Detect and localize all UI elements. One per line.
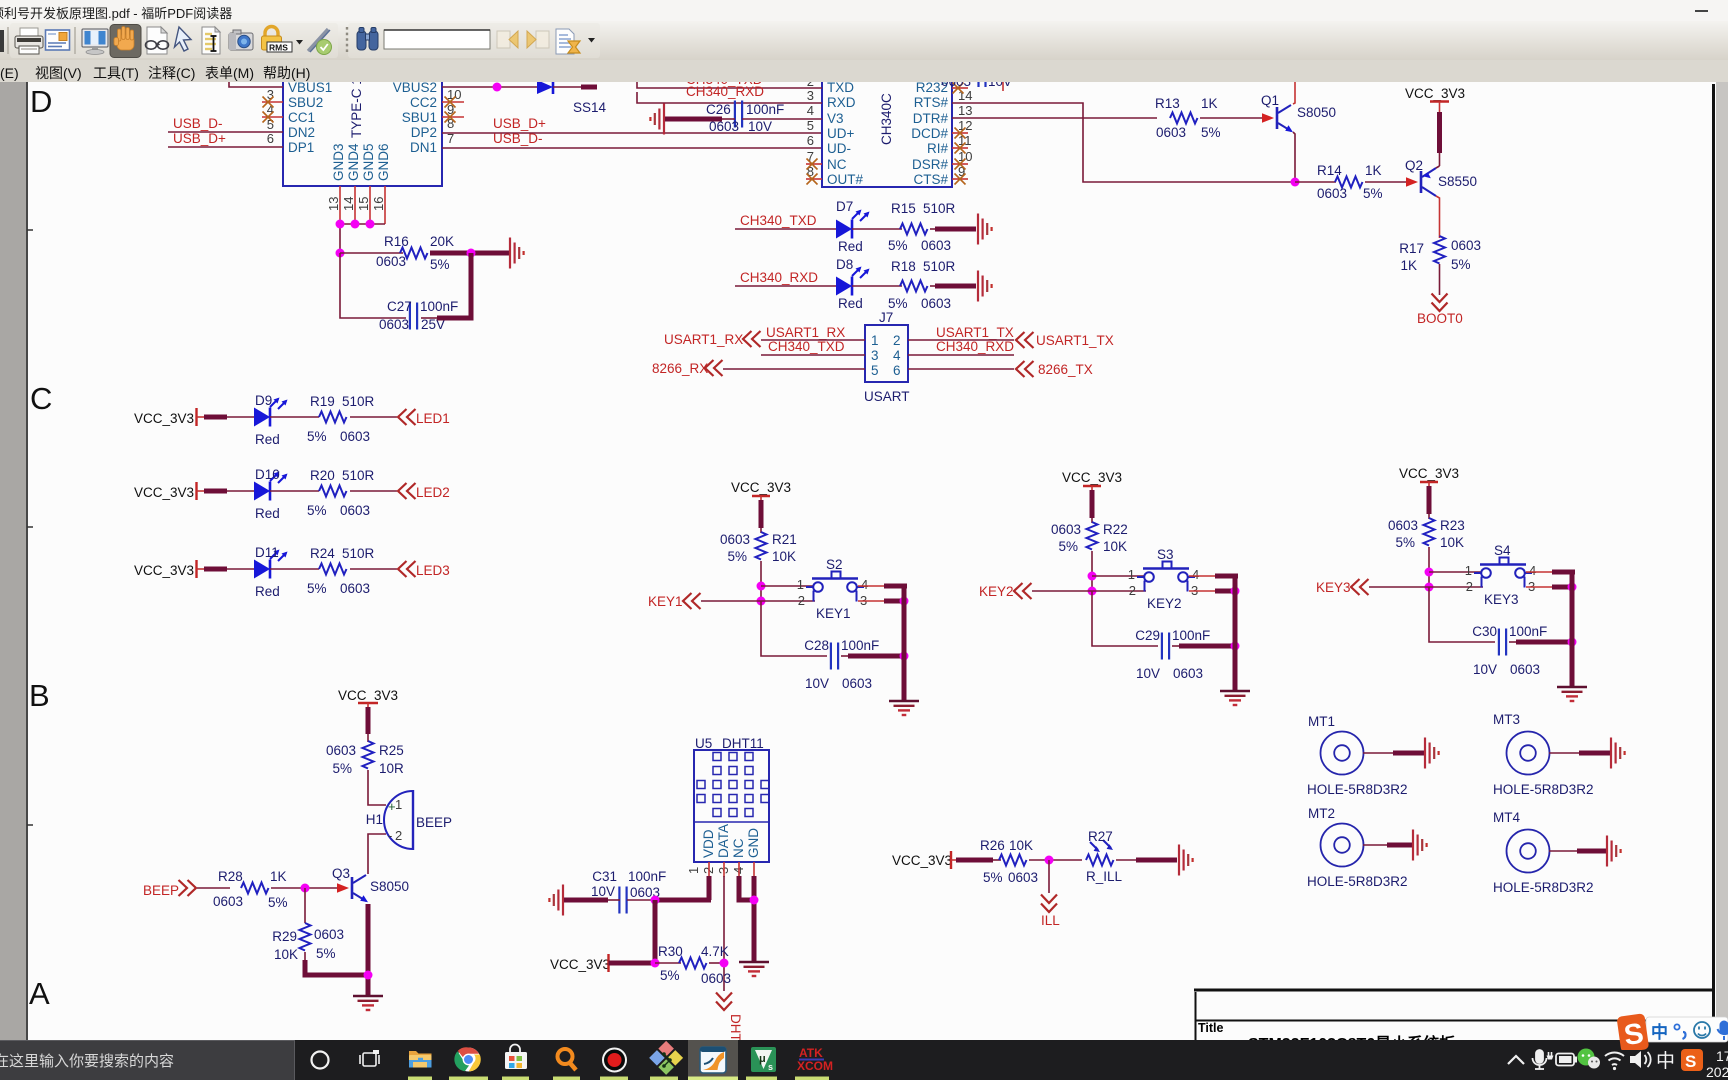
svg-text:D7: D7 [836,199,853,214]
junction GND5 [366,220,375,229]
photoresistor R27 R_ILL [1086,829,1123,884]
svg-text:RMS: RMS [269,43,288,53]
resistor R29 10K vertical [272,923,344,962]
menu bar [0,60,1728,82]
wire J7 pin6 [908,368,1014,370]
svg-text:3: 3 [807,88,814,103]
svg-text:CC1: CC1 [288,110,315,125]
svg-text:2: 2 [893,333,901,348]
svg-text:5%: 5% [316,946,336,961]
svg-text:5%: 5% [307,503,327,518]
wire Q2 collector down [1436,196,1440,238]
wire thick VCC to R23 [1427,486,1432,514]
svg-text:R27: R27 [1088,829,1113,844]
chevron LED1 [398,409,416,425]
svg-text:S2: S2 [826,557,843,572]
mounting hole MT1 [1307,714,1408,797]
ground MT4 [1607,836,1621,867]
wire thick VCC to R21 [759,500,764,528]
svg-text:S8050: S8050 [370,879,409,894]
junction emitter/R29 [364,971,373,980]
svg-text:在这里输入你要搜索的内容: 在这里输入你要搜索的内容 [0,1053,174,1070]
svg-text:R28: R28 [218,869,243,884]
wire thick VCC to R26 [951,859,957,861]
chevron LED2 [398,483,416,499]
wire USB_D+ to DP1 [168,146,283,148]
svg-text:1K: 1K [1201,96,1218,111]
svg-text:10R: 10R [379,761,404,776]
tray wifi icon [1605,1052,1624,1070]
wire VBUS2 to diode [442,86,537,88]
wire C31 to VDD junction [627,899,657,901]
junction C31/VDD [651,896,660,905]
svg-text:0603: 0603 [941,82,971,89]
svg-text:0603: 0603 [326,743,356,758]
junction row2 [757,597,766,606]
pin stubs GND3-GND6 [339,186,341,224]
svg-text:VDD: VDD [701,829,716,858]
LED D8 Red [836,257,870,311]
resistor R26 10K [980,838,1038,885]
junction bus cap row [900,652,909,661]
svg-text:R29: R29 [272,929,297,944]
pin stub DSR# with X [952,163,968,165]
svg-text:C27: C27 [387,299,412,314]
wire R22 to junction [1091,551,1093,591]
taskbar running indicators [408,1077,829,1080]
svg-text:5%: 5% [307,581,327,596]
mounting hole MT2 [1307,806,1408,889]
svg-text:GND5: GND5 [361,143,376,181]
pin stub SBU1 [442,116,464,118]
svg-text:10K: 10K [772,549,796,564]
svg-text:OUT#: OUT# [827,172,863,187]
toolbar prev search button [497,31,518,48]
wire R29 to ground bus [304,952,306,962]
svg-text:V3: V3 [827,111,844,126]
svg-text:14: 14 [341,197,356,211]
wire thick ground bus [1570,570,1575,687]
svg-text:6: 6 [893,363,901,378]
resistor R13 1K [1155,96,1221,140]
wire thick VCC to R25 [366,707,371,734]
svg-text:16: 16 [371,197,386,211]
wire thick VCC to D9 [197,416,206,418]
svg-text:KEY2: KEY2 [979,584,1014,599]
svg-text:0603: 0603 [376,254,406,269]
svg-text:KEY1: KEY1 [816,606,851,621]
wire C31 left plate [608,899,620,901]
svg-text:USART1_TX: USART1_TX [1036,333,1114,348]
no-connect X on CC2 [445,97,456,108]
wire thick ground bus [902,584,907,701]
svg-text:10V: 10V [1136,666,1160,681]
power VCC_3V3 for D9 [134,408,197,426]
resistor R14 1K [1317,163,1383,201]
wire CH340_RXD to D8 [735,285,836,287]
chevron KEY1 [683,593,701,609]
wire MT2 to ground [1363,844,1389,846]
svg-text:CTS#: CTS# [913,172,948,187]
svg-text:5: 5 [871,363,879,378]
svg-text:C: C [30,381,52,416]
svg-text:Red: Red [838,296,863,311]
svg-text:0603: 0603 [1388,518,1418,533]
svg-text:BEEP: BEEP [143,883,179,898]
wire C27 branch [340,253,406,318]
wire R21 to junction [760,561,762,601]
svg-text:LED3: LED3 [416,563,450,578]
chevron BOOT0 [1432,294,1448,312]
pin stub CC1 [262,116,283,118]
svg-text:XCOM: XCOM [797,1059,833,1073]
svg-text:Red: Red [838,239,863,254]
resistor R18 510R [888,259,956,311]
svg-text:10V: 10V [988,82,1012,89]
svg-text:10K: 10K [274,947,298,962]
junction R28/R29 [301,884,310,893]
wire C30 branch [1429,587,1495,642]
pin stub VDD [708,862,710,877]
svg-text:J7: J7 [879,310,893,325]
wire thick R15 to ground [930,228,935,230]
wire thick branch down [653,900,658,963]
wire R26 to junction [1029,859,1082,861]
svg-text:5%: 5% [727,549,747,564]
svg-text:VCC_3V3: VCC_3V3 [134,563,194,578]
svg-text:5%: 5% [888,296,908,311]
wire R25 to buzzer pin1 [368,770,386,805]
toolbar text select icon [202,27,220,54]
transistor Q2 S8550 [1405,158,1477,196]
svg-text:DN1: DN1 [410,140,437,155]
svg-text:Q2: Q2 [1405,158,1423,173]
wire thick VBUS segment [581,85,597,90]
LED D9 Red [254,393,288,447]
transistor Q1 S8050 [1261,93,1336,132]
wire C26 to V3 [742,118,822,120]
svg-text:1K: 1K [1365,163,1382,178]
junction row1 [1088,572,1097,581]
resistor R24 510R [307,546,375,596]
no-connect X on SBU2 [263,97,274,108]
svg-text:MT4: MT4 [1493,810,1520,825]
taskbar recorder icon [603,1049,626,1072]
junction row2 [1088,587,1097,596]
switch S3 [1128,547,1199,611]
ground MT2 [1413,830,1427,861]
wire J7 pin4 [908,354,1014,356]
svg-text:0603: 0603 [1510,662,1540,677]
svg-text:S: S [1685,1052,1696,1071]
pin stub CTS# with X [952,178,968,180]
svg-text:SS14: SS14 [573,100,607,115]
LED D7 Red [836,199,870,254]
svg-text:1: 1 [871,333,879,348]
svg-text:5%: 5% [307,429,327,444]
power VCC_3V3 for DHT11 [550,954,610,972]
wire thick NC to GND [739,876,754,900]
junction at R16 row [336,249,345,258]
svg-text:0603: 0603 [709,119,739,134]
svg-text:VBUS2: VBUS2 [393,82,437,95]
wire row1 to switch pin1 [1092,575,1145,577]
mounting hole MT4 [1493,810,1594,895]
wire row2 to switch pin2 [1429,586,1483,588]
svg-text:R18: R18 [891,259,916,274]
power symbol VCC_3V3 top right [1405,86,1465,107]
svg-text:LED2: LED2 [416,485,450,500]
toolbar snapshot doc+glasses icon [146,27,169,54]
svg-text:ILL: ILL [1041,913,1060,928]
svg-text:D10: D10 [255,467,280,482]
sogou IME popup [1600,1005,1728,1050]
svg-text:Red: Red [255,432,280,447]
wire to J7 pin3 [761,354,865,356]
wire pin3 to bus [858,600,886,602]
svg-text:5%: 5% [430,257,450,272]
wire R30 to DATA [709,962,724,964]
chevron BEEP [179,880,197,896]
svg-text:DN2: DN2 [288,125,315,140]
svg-text:MT2: MT2 [1308,806,1335,821]
svg-text:BOOT0: BOOT0 [1417,311,1463,326]
resistor R28 1K [213,869,288,910]
svg-text:RI#: RI# [927,141,949,156]
ground right of R18 [978,271,992,302]
wire thick VDD row [657,898,711,903]
ground BEEP circuit [353,996,383,1010]
wire thick R18 to ground [930,285,935,287]
wire node to R14 [1295,181,1336,183]
pin stub DATA [723,862,725,877]
pin stub NC [738,862,740,877]
svg-text:R26: R26 [980,838,1005,853]
svg-text:USB_D-: USB_D- [173,116,223,131]
svg-text:0603: 0603 [340,581,370,596]
svg-text:4: 4 [1192,567,1199,582]
svg-text:CH340_TXD: CH340_TXD [768,339,845,354]
power VCC_3V3 for buzzer [338,688,398,708]
chevron 8266_RX [705,360,723,376]
svg-text:DTR#: DTR# [913,111,949,126]
svg-text:510R: 510R [342,546,375,561]
junction bus row2 [1231,587,1240,596]
junction GND4 [351,220,360,229]
wire C29 branch [1092,591,1158,646]
svg-text:RXD: RXD [827,95,856,110]
wire DATA down [723,876,725,991]
svg-text:8266_TX: 8266_TX [1038,362,1093,377]
svg-text:SBU1: SBU1 [402,110,437,125]
svg-text:1: 1 [1128,567,1135,582]
wire thick C31 ground [564,898,608,903]
svg-text:10K: 10K [1009,838,1033,853]
wire R28 to Q3 base [271,887,337,889]
svg-text:SBU2: SBU2 [288,95,323,110]
svg-text:MT1: MT1 [1308,714,1335,729]
wire to R30 [655,962,681,964]
resistor R23 10K vertical [1388,518,1465,550]
svg-text:NC: NC [827,157,847,172]
svg-text:5: 5 [807,118,814,133]
svg-text:CH340_RXD: CH340_RXD [686,84,764,99]
svg-text:0603: 0603 [340,503,370,518]
sogou S logo [1616,1013,1649,1053]
svg-text:0603: 0603 [1451,238,1481,253]
svg-text:0603: 0603 [1051,522,1081,537]
wire CH340_TXD to D7 [735,228,836,230]
svg-text:KEY3: KEY3 [1484,592,1519,607]
svg-text:VBUS1: VBUS1 [288,82,332,95]
svg-text:TYPE-C 1: TYPE-C 1 [349,82,364,138]
svg-text:R20: R20 [310,468,335,483]
taskbar search box [0,1040,295,1080]
svg-text:2: 2 [798,593,805,608]
wire to R16 [340,252,403,254]
svg-text:5%: 5% [660,968,680,983]
svg-text:10V: 10V [805,676,829,691]
taskbar chrome icon [454,1047,480,1071]
svg-text:USB_D-: USB_D- [493,131,543,146]
svg-text:C30: C30 [1472,624,1497,639]
svg-text:C29: C29 [1135,628,1160,643]
wire thick VDD down [707,876,712,900]
svg-text:DP1: DP1 [288,140,314,155]
wire thick R27 to ground [1116,859,1137,861]
svg-text:R14: R14 [1317,163,1342,178]
svg-text:R13: R13 [1155,96,1180,111]
svg-text:100nF: 100nF [746,102,784,117]
svg-text:C31: C31 [592,869,617,884]
svg-text:Q1: Q1 [1261,93,1279,108]
svg-text:CH340C: CH340C [879,93,894,145]
svg-text:s: s [768,1062,773,1072]
svg-text:R19: R19 [310,394,335,409]
svg-text:CH340_TXD: CH340_TXD [740,213,817,228]
svg-text:A: A [29,976,50,1011]
wire thick VCC to Q2 emitter [1439,107,1441,113]
svg-text:510R: 510R [923,259,956,274]
svg-text:8266_RX: 8266_RX [652,361,708,376]
pin stub OUT# with X [806,178,822,180]
junction on VBUS2 wire [493,83,502,92]
ground right of R27 [1179,845,1193,876]
chevron ILL [1041,895,1057,913]
no-connect X on SBU1 [445,112,456,123]
svg-text:VCC_3V3: VCC_3V3 [1405,86,1465,101]
wire Q1 collector up [1293,80,1295,104]
svg-text:S8550: S8550 [1438,174,1477,189]
capacitor C30 100nF 10V [1472,624,1547,677]
svg-text:CC2: CC2 [410,95,437,110]
wire MT3 to ground [1549,752,1581,754]
pin stub NC with X [806,163,822,165]
svg-text:USB_D+: USB_D+ [173,131,226,146]
svg-text:0603: 0603 [340,429,370,444]
svg-text:5%: 5% [1201,125,1221,140]
svg-text:USART1_RX: USART1_RX [664,332,743,347]
svg-text:D11: D11 [255,545,279,560]
taskbar store icon [505,1045,527,1070]
wire USB_D- to DN2 [168,131,283,133]
capacitor C31 100nF 10V [591,869,666,914]
arrow into Q2 base [1406,177,1418,187]
capacitor C28 100nF 10V [804,638,879,691]
power VCC_3V3 for D11 [134,560,197,578]
svg-text:VCC_3V3: VCC_3V3 [892,853,952,868]
svg-text:HOLE-5R8D3R2: HOLE-5R8D3R2 [1493,880,1594,895]
chevron KEY3 [1351,579,1369,595]
svg-text:C26: C26 [706,102,731,117]
wire KEY2 row [1032,590,1092,592]
toolbar select cursor icon [175,27,192,51]
svg-text:5%: 5% [268,895,288,910]
svg-text:UD+: UD+ [827,126,854,141]
wire C27 to thick corner [421,317,437,319]
switch S2 [797,557,868,621]
junction ILL node [1045,856,1054,865]
svg-text:S8050: S8050 [1297,105,1336,120]
svg-text:10: 10 [447,87,461,102]
taskbar task view icon [360,1050,379,1066]
wire BEEP to R28 [197,887,230,889]
transistor Q3 S8050 [332,866,409,902]
wire R23 to junction [1428,547,1430,587]
svg-text:5%: 5% [1058,539,1078,554]
toolbar [0,21,1728,60]
svg-text:USB_D+: USB_D+ [493,116,546,131]
svg-text:DSR#: DSR# [912,157,949,172]
svg-text:4: 4 [1529,563,1536,578]
junction row2 [1425,583,1434,592]
wire thick C26 ground [665,117,722,122]
ground KEY2 [1220,691,1250,705]
wire ILL stub down [1048,860,1050,893]
svg-text:0603: 0603 [314,927,344,942]
svg-text:KEY1: KEY1 [648,594,683,609]
junction GND3 [336,220,345,229]
power VCC_3V3 for KEY3 [1399,466,1459,487]
capacitor C29 100nF 10V [1135,628,1210,681]
svg-text:5%: 5% [1451,257,1471,272]
svg-text:DCD#: DCD# [911,126,948,141]
svg-text:510R: 510R [923,201,956,216]
no-connect X on CC1 [263,112,274,123]
svg-text:Title: Title [1198,1021,1224,1035]
svg-text:GND3: GND3 [331,143,346,181]
svg-text:D8: D8 [836,257,853,272]
svg-text:100nF: 100nF [841,638,879,653]
wire KEY1 row [701,600,761,602]
svg-text:R22: R22 [1103,522,1128,537]
svg-text:5%: 5% [332,761,352,776]
tray sogou icon [1681,1049,1703,1071]
pin stub SBU2 [262,101,283,103]
wire C30 to bus [1509,641,1518,643]
wire MT4 to ground [1549,850,1579,852]
wire R29 branch [304,888,306,923]
svg-text:DATA: DATA [716,824,731,858]
taskbar foxit (active) [688,1040,738,1080]
wire R20 to LED2 port [350,490,397,492]
svg-text:12: 12 [958,118,972,133]
wire thick ground bus [1233,574,1238,691]
taskbar ATK XCOM icon [797,1046,833,1073]
toolbar RMS lock icon [262,27,304,53]
svg-text:UD-: UD- [827,141,851,156]
tray battery icon [1547,1052,1578,1066]
